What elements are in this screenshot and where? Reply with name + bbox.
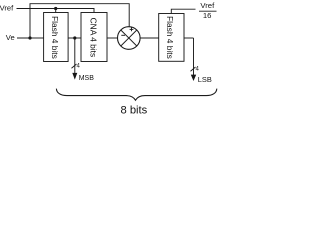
svg-text:16: 16 [203, 11, 212, 20]
svg-text:CNA 4 bits: CNA 4 bits [89, 18, 99, 58]
svg-text:Vref: Vref [200, 1, 215, 10]
svg-text:8 bits: 8 bits [121, 104, 148, 115]
svg-text:MSB: MSB [79, 75, 95, 82]
svg-text:Flash 4 bits: Flash 4 bits [50, 16, 60, 59]
svg-text:Flash 4 bits: Flash 4 bits [165, 16, 175, 59]
svg-text:Vref: Vref [0, 4, 14, 13]
svg-text:Ve: Ve [6, 33, 15, 42]
svg-text:LSB: LSB [198, 75, 212, 84]
